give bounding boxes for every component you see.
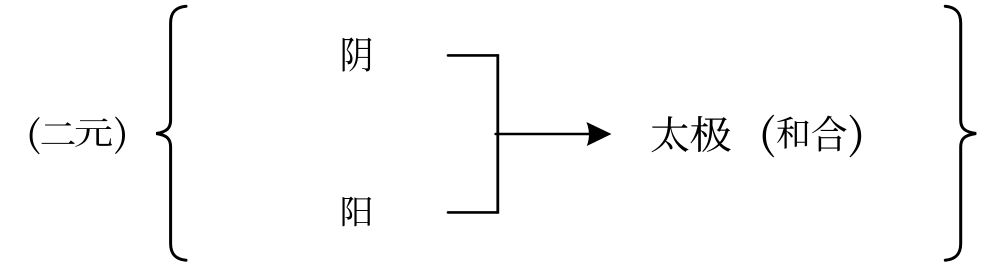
paren-close 1: ")" [115, 116, 125, 154]
char 阴: "阴" [343, 37, 372, 71]
paren-close 2: ")" [850, 115, 862, 158]
arrow head [586, 122, 611, 146]
char 太: "太" [652, 116, 689, 152]
char 和: "和" [777, 117, 809, 149]
arrow shaft [496, 133, 596, 136]
left curly brace [156, 6, 186, 260]
wire: top horizontal segment [448, 54, 498, 57]
wire: vertical joining segment [496, 54, 499, 213]
wire: bottom horizontal segment [448, 211, 498, 214]
right curly brace [945, 6, 976, 260]
paren-open 2: "(" [763, 115, 775, 158]
char 阳: "阳" [342, 197, 371, 227]
char 合: "合" [812, 116, 846, 152]
char 极: "极" [690, 116, 730, 152]
paren-open 1: "(" [30, 117, 40, 154]
char 二: "二" [41, 122, 74, 144]
char 元: "元" [75, 118, 112, 147]
